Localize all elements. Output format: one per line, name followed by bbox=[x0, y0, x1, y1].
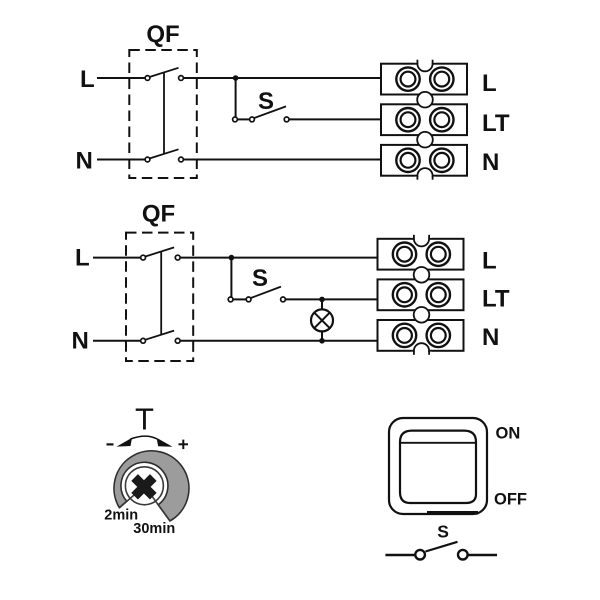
rocker outer frame bbox=[389, 418, 487, 514]
svg-text:L: L bbox=[75, 245, 90, 272]
QF pole N blade bbox=[150, 149, 179, 158]
switch symbol right contact bbox=[458, 550, 468, 560]
QF contact L left bbox=[145, 76, 150, 81]
S contact pivot circle (middle) bbox=[228, 297, 233, 302]
svg-text:N: N bbox=[482, 324, 499, 351]
svg-text:N: N bbox=[482, 149, 499, 176]
svg-text:S: S bbox=[252, 265, 268, 292]
S contact left (middle) bbox=[246, 297, 251, 302]
S contact pivot circle bbox=[233, 117, 238, 122]
svg-text:30min: 30min bbox=[133, 521, 175, 537]
node junction on L wire (middle) bbox=[229, 255, 235, 261]
QF contact N left bbox=[145, 157, 150, 162]
svg-text:L: L bbox=[80, 66, 95, 93]
switch symbol left contact bbox=[415, 550, 425, 560]
plus sign bbox=[179, 443, 189, 445]
pointer line to 2min bbox=[120, 492, 138, 508]
node junction above lamp bbox=[319, 297, 325, 303]
switch symbol left wire bbox=[385, 554, 415, 556]
svg-text:QF: QF bbox=[146, 21, 179, 48]
wire S to LT terminal bbox=[289, 118, 381, 120]
QF contact L left (middle) bbox=[141, 255, 146, 260]
wire N left segment (middle) bbox=[93, 340, 141, 342]
switch symbol right wire bbox=[468, 554, 497, 556]
svg-text:N: N bbox=[72, 328, 89, 355]
svg-text:T: T bbox=[135, 402, 154, 437]
wire L left segment (middle) bbox=[93, 257, 141, 259]
S contact right (middle) bbox=[281, 297, 286, 302]
QF pole L blade bbox=[150, 68, 179, 77]
wire N right segment (middle) bbox=[180, 340, 378, 342]
rocker button bbox=[400, 431, 476, 503]
svg-text:OFF: OFF bbox=[494, 491, 527, 509]
QF contact L right (middle) bbox=[175, 255, 180, 260]
svg-text:LT: LT bbox=[482, 286, 510, 313]
terminal block middle bbox=[378, 228, 464, 361]
svg-text:QF: QF bbox=[142, 201, 175, 228]
QF mechanical link (middle) bbox=[160, 252, 162, 335]
QF contact N left (middle) bbox=[141, 338, 146, 343]
dial gray spiral body bbox=[114, 451, 189, 521]
switch symbol blade bbox=[426, 542, 458, 552]
svg-text:ON: ON bbox=[496, 424, 521, 442]
node junction on L wire bbox=[233, 75, 239, 81]
wire N left segment bbox=[97, 159, 145, 161]
S contact right bbox=[284, 117, 289, 122]
pressed indicator bar bbox=[427, 511, 478, 515]
wire drop to switch S bbox=[235, 78, 237, 117]
terminal block top bbox=[381, 53, 467, 186]
wire lamp to N bbox=[321, 331, 323, 341]
breaker QF dashed enclosure bbox=[129, 50, 197, 178]
wire stub at S input (middle) bbox=[231, 298, 247, 300]
wire drop to switch S (middle) bbox=[230, 258, 232, 297]
breaker QF dashed enclosure (middle) bbox=[126, 233, 193, 361]
wire L right segment (middle) bbox=[180, 257, 378, 259]
svg-text:S: S bbox=[437, 522, 449, 542]
rocker ridge line bbox=[401, 442, 476, 444]
wire S to LT terminal (middle) bbox=[285, 298, 377, 300]
wire L right segment to terminal bbox=[184, 77, 382, 79]
QF pole L blade (middle) bbox=[145, 247, 174, 256]
adjustment arc bbox=[131, 436, 158, 439]
pointer line to 30min bbox=[150, 493, 170, 521]
lamp HL bbox=[311, 309, 333, 331]
S blade bbox=[254, 106, 286, 118]
QF contact N right bbox=[179, 157, 184, 162]
dial inner white circle bbox=[125, 467, 163, 505]
svg-text:LT: LT bbox=[482, 110, 510, 137]
svg-text:N: N bbox=[76, 148, 93, 175]
QF mechanical link bbox=[163, 73, 165, 154]
S blade (middle) bbox=[251, 287, 281, 298]
knob X bar 2 bbox=[135, 478, 154, 497]
svg-text:L: L bbox=[482, 70, 497, 97]
wire L left segment bbox=[97, 77, 145, 79]
node junction lamp to N wire bbox=[319, 338, 325, 344]
S contact left bbox=[250, 117, 255, 122]
wire stub at S input bbox=[235, 118, 250, 120]
QF contact N right (middle) bbox=[175, 338, 180, 343]
svg-text:L: L bbox=[482, 248, 497, 275]
arrowhead right bbox=[157, 438, 173, 447]
wire N right segment to terminal bbox=[184, 159, 382, 161]
QF pole N blade (middle) bbox=[145, 331, 174, 340]
wire junction to lamp bbox=[321, 299, 323, 310]
QF contact L right bbox=[179, 76, 184, 81]
arrowhead left bbox=[117, 438, 133, 447]
minus sign bbox=[107, 443, 114, 445]
knob X bar 1 bbox=[135, 478, 154, 497]
